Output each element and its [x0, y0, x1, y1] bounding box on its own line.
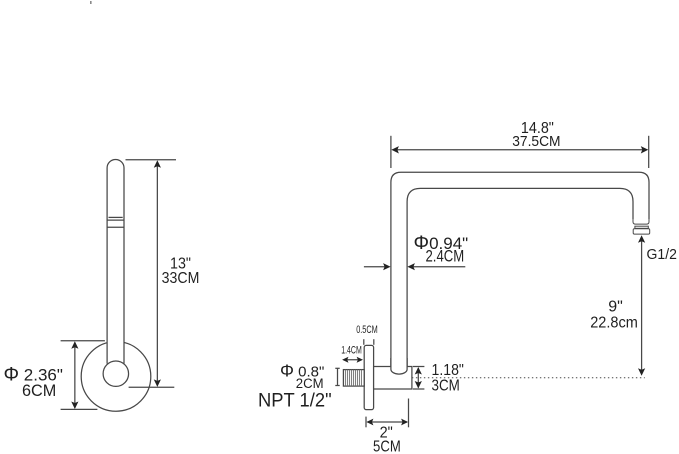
svg-text:G1/2: G1/2 [647, 246, 677, 263]
flange inner circle (left view) [103, 361, 128, 386]
nipple diameter bracket [335, 368, 339, 385]
svg-text:37.5CM: 37.5CM [512, 133, 560, 150]
dimension 14.8" / 37.5CM (arm length) [391, 136, 649, 168]
nozzle tube end line [633, 218, 649, 224]
pipe collar seam lines (left view) [107, 217, 124, 227]
svg-text:1.4CM: 1.4CM [341, 344, 362, 356]
svg-text:2.4CM: 2.4CM [426, 247, 465, 266]
svg-text:NPT 1/2": NPT 1/2" [258, 391, 332, 412]
svg-text:22.8cm: 22.8cm [590, 314, 638, 331]
stray speck artifact [90, 1, 92, 4]
dimension 13" / 33CM (left view height) [126, 160, 177, 387]
svg-text:6CM: 6CM [22, 381, 56, 400]
shower arm inner outline (right view) [407, 188, 633, 367]
svg-text:3CM: 3CM [432, 378, 460, 395]
dimension 1.18" / 3CM (fitting diameter) [413, 367, 425, 390]
threaded nipple NPT (right view) [343, 370, 364, 387]
dimension 2" / 5CM (fitting length) [366, 399, 409, 428]
1.4CM nipple length arrow [342, 357, 363, 363]
svg-text:2CM: 2CM [296, 376, 324, 391]
svg-text:33CM: 33CM [162, 270, 200, 287]
fitting body (right view) [374, 367, 412, 390]
shower pipe body (left view) [107, 159, 124, 363]
shower arm outer outline (right view) [391, 172, 649, 367]
pipe entering fitting with rounded end (right view) [391, 358, 407, 374]
nozzle collar band 2 [633, 229, 650, 234]
wall plate (escutcheon, right view) [364, 345, 373, 409]
dimension phi 2.36" / 6CM (flange diameter) [61, 341, 105, 410]
flange outer circle (left view) [81, 342, 151, 412]
0.5CM wall plate thickness ticks [364, 339, 374, 345]
svg-text:9": 9" [608, 299, 623, 316]
dimension phi 0.94" / 2.4CM (pipe diameter) [364, 263, 465, 270]
svg-text:5CM: 5CM [373, 439, 401, 454]
dashed reference line (wall level) [412, 377, 645, 379]
nozzle collar band 1 [635, 226, 648, 228]
svg-text:0.5CM: 0.5CM [356, 324, 378, 336]
G1/2 outlet pointer and 9" / 22.8cm dimension line [638, 235, 645, 375]
